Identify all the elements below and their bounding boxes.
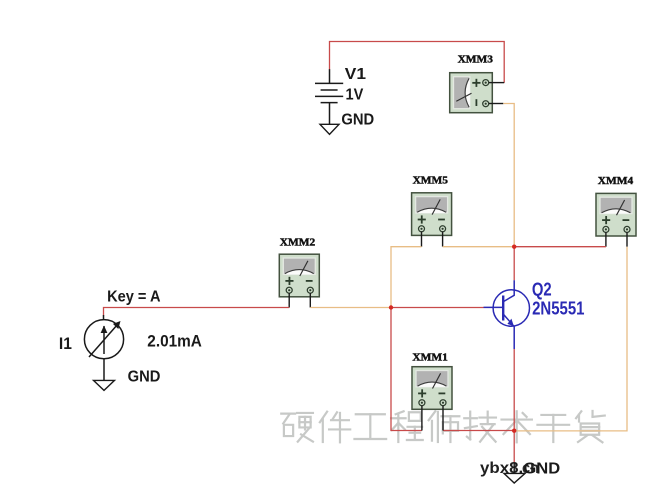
ground at I1 [94,380,115,390]
I1 bottom lead [103,359,105,381]
svg-text:XMM4: XMM4 [598,175,634,187]
multimeter XMM4 [596,193,636,236]
I1 internal arrow [103,326,105,354]
wire red: XMM1 minus to node C [443,430,514,432]
transistor Q2 [484,280,530,349]
svg-text:V1: V1 [345,66,366,83]
pin stub XMM2 plus [288,293,290,308]
Q2 emitter arrow [507,319,514,327]
svg-text:XMM1: XMM1 [412,352,447,364]
battery V1 [315,69,343,124]
multimeter XMM3 (rotated, screen left, terminals right) [450,73,493,113]
svg-text:Q2: Q2 [532,279,552,299]
pin stub XMM5 minus [442,232,444,247]
node C junction dot [512,429,516,433]
ground at Q2 emitter [513,463,515,473]
I1 top lead [103,315,105,320]
svg-text:I1: I1 [59,334,72,353]
svg-text:XMM3: XMM3 [458,54,494,66]
svg-text:GND: GND [128,369,161,386]
current source I1 [84,320,123,359]
svg-text:GND: GND [523,460,560,477]
svg-text:XMM2: XMM2 [280,237,316,249]
pin stub XMM3 plus [489,82,504,84]
pin stub XMM4 plus [605,232,607,247]
wire red: node B down to XMM1 plus [391,308,422,431]
pin stub XMM1 plus [421,406,423,431]
svg-text:XMM5: XMM5 [413,175,449,187]
wire red: node A down to Q2 collector [513,247,515,281]
multimeter XMM1 [412,367,452,410]
svg-text:1V: 1V [346,86,364,103]
svg-text:Key = A: Key = A [107,288,161,305]
node B junction dot [389,305,393,309]
pin stub XMM5 plus [421,232,423,247]
watermark text (simulated CJK strokes) [281,411,604,442]
pin stub XMM2 minus [309,293,311,308]
wire red: node B to Q2 base [391,307,484,309]
pin stub XMM1 minus [442,406,444,431]
multimeter XMM5 [412,193,452,236]
pin stub XMM4 minus [626,232,628,247]
wire orange: XMM2 minus to node B [310,307,391,309]
svg-text:2.01mA: 2.01mA [147,331,202,350]
wire orange: XMM5 plus to node B [391,247,422,308]
svg-text:GND: GND [341,112,374,129]
node A junction dot [512,245,516,249]
wire red: Q2 emitter down to node C [513,349,515,431]
pin stub XMM3 minus [489,103,503,105]
I1 adjustment arrow [89,325,118,358]
wire red: node C down to ground [513,431,515,464]
wire red: V1 plus to XMM3 plus (top loop) [330,42,505,83]
svg-text:2N5551: 2N5551 [532,299,584,319]
wire red: XMM2 plus left to I1 [104,308,290,316]
wire orange: XMM5 minus to node A [443,246,515,248]
wire red: node A to XMM4 plus [514,246,606,248]
wire orange: XMM4 minus down and left to node C [514,247,627,431]
wire orange: XMM3 minus to node A [503,104,514,247]
multimeter XMM2 [279,254,319,297]
ground at V1 [320,124,339,134]
